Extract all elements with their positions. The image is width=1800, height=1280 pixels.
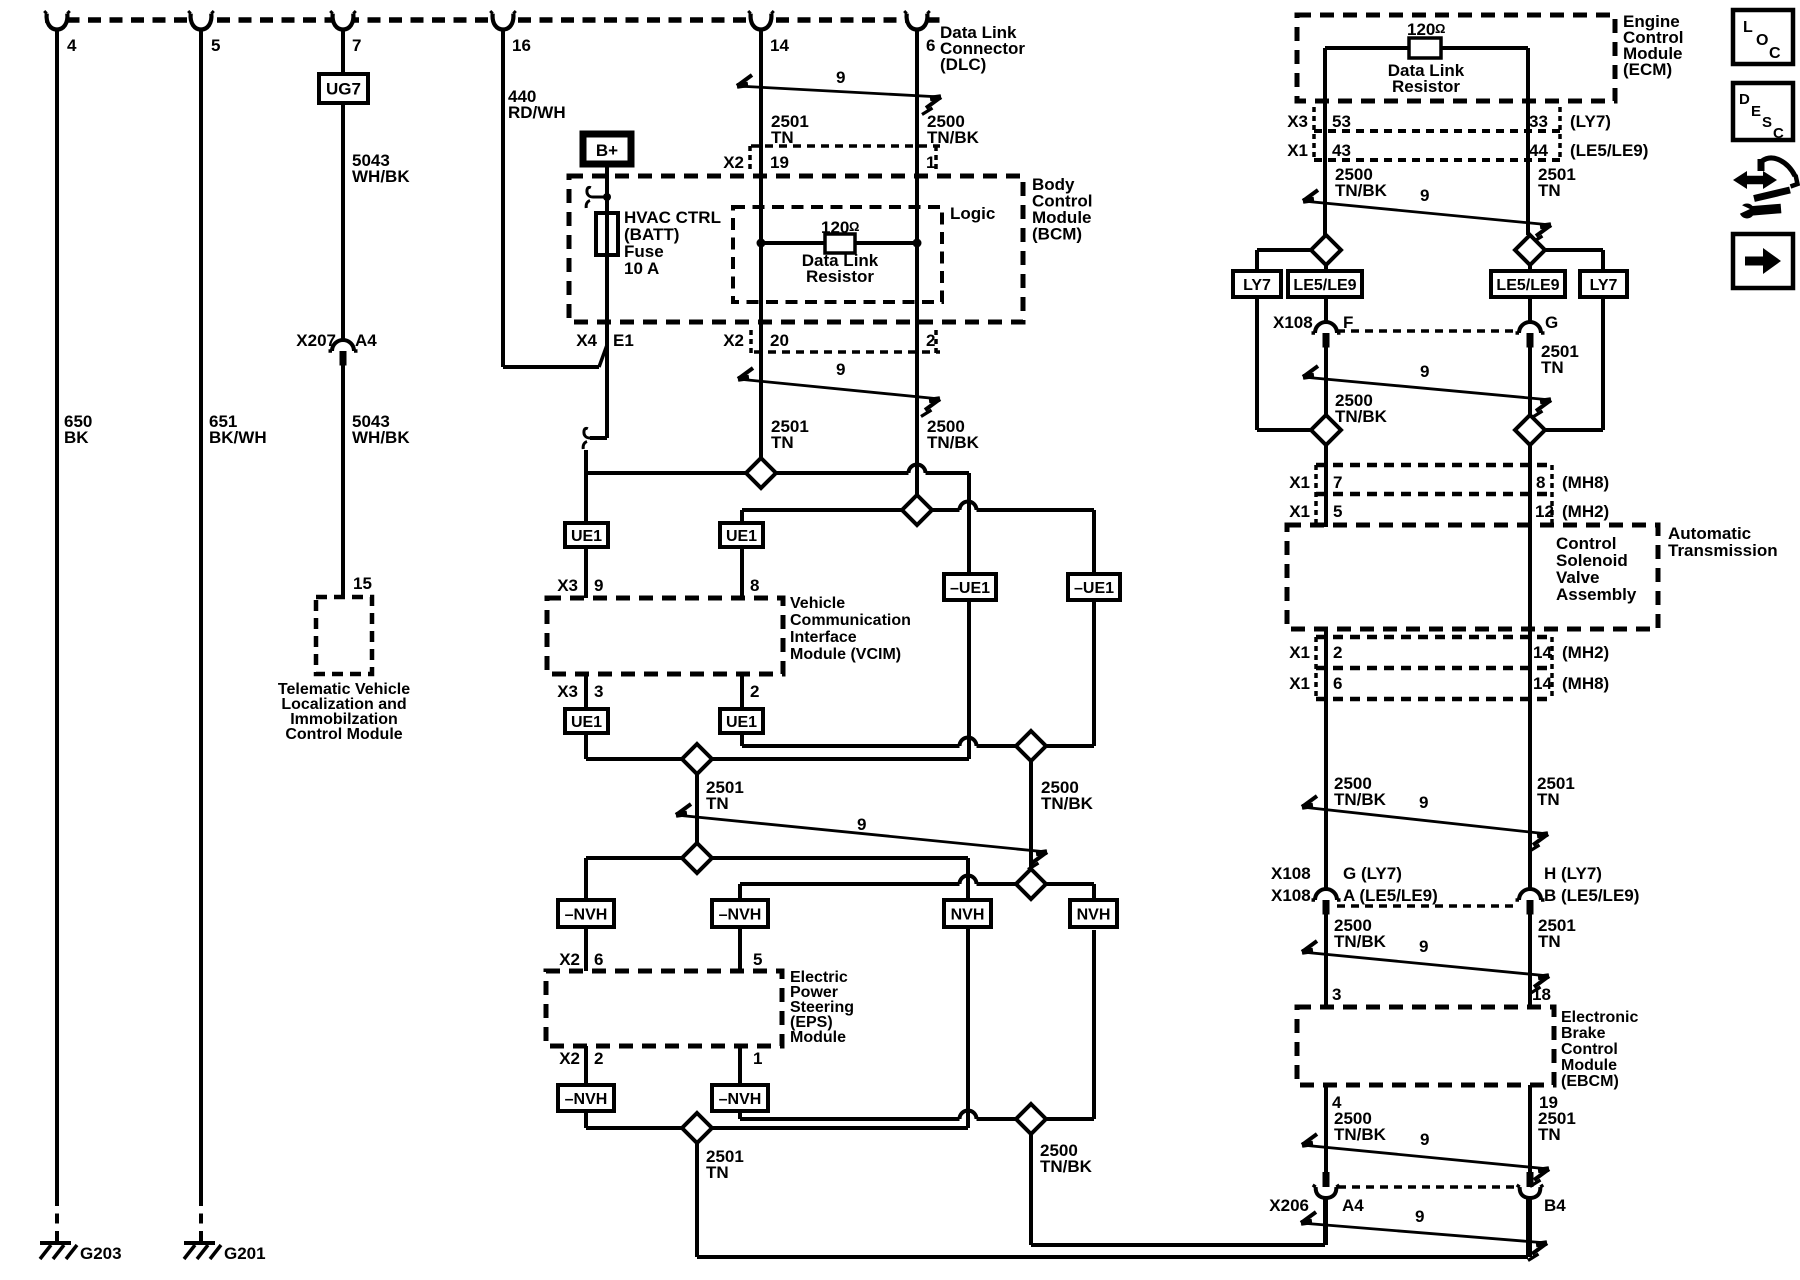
svg-text:S: S [1762, 114, 1772, 131]
svg-text:(EBCM): (EBCM) [1561, 1073, 1619, 1090]
svg-text:A4: A4 [355, 331, 377, 350]
svg-text:G: G [1545, 313, 1558, 332]
svg-text:Control: Control [1561, 1041, 1618, 1058]
svg-text:2: 2 [750, 682, 759, 701]
svg-text:(DLC): (DLC) [940, 55, 986, 74]
svg-text:X1: X1 [1287, 141, 1308, 160]
svg-text:(MH8): (MH8) [1562, 674, 1609, 693]
svg-text:X108: X108 [1271, 864, 1311, 883]
svg-text:16: 16 [512, 36, 531, 55]
svg-text:9: 9 [1419, 793, 1428, 812]
svg-text:F: F [1343, 313, 1353, 332]
svg-text:9: 9 [1420, 186, 1429, 205]
svg-text:LY7: LY7 [1243, 277, 1271, 294]
svg-text:6: 6 [926, 36, 935, 55]
svg-text:TN/BK: TN/BK [927, 433, 980, 452]
svg-text:2: 2 [1333, 643, 1342, 662]
svg-text:33: 33 [1529, 112, 1548, 131]
svg-text:20: 20 [770, 331, 789, 350]
svg-text:D: D [1739, 91, 1750, 108]
svg-text:RD/WH: RD/WH [508, 103, 566, 122]
svg-text:44: 44 [1529, 141, 1548, 160]
svg-text:UE1: UE1 [726, 528, 757, 545]
svg-text:L: L [1743, 19, 1753, 36]
svg-text:X108: X108 [1273, 313, 1313, 332]
svg-text:A4: A4 [1342, 1196, 1364, 1215]
svg-text:4: 4 [67, 36, 77, 55]
svg-text:LY7: LY7 [1590, 277, 1618, 294]
svg-text:3: 3 [1332, 985, 1341, 1004]
svg-text:–UE1: –UE1 [950, 580, 990, 597]
svg-text:Vehicle: Vehicle [790, 595, 845, 612]
svg-text:TN/BK: TN/BK [1040, 1157, 1093, 1176]
svg-text:X4: X4 [576, 331, 597, 350]
svg-text:TN: TN [1541, 358, 1564, 377]
svg-text:A (LE5/LE9): A (LE5/LE9) [1343, 886, 1438, 905]
svg-text:5: 5 [753, 950, 762, 969]
svg-text:TN: TN [706, 794, 729, 813]
svg-text:(MH2): (MH2) [1562, 502, 1609, 521]
svg-text:UE1: UE1 [571, 714, 602, 731]
svg-text:3: 3 [594, 682, 603, 701]
svg-text:6: 6 [594, 950, 603, 969]
svg-text:X108: X108 [1271, 886, 1311, 905]
svg-text:BK: BK [64, 428, 89, 447]
svg-text:TN/BK: TN/BK [1041, 794, 1094, 813]
svg-text:Logic: Logic [950, 204, 995, 223]
svg-text:–NVH: –NVH [719, 907, 762, 924]
svg-text:Module: Module [790, 1029, 846, 1046]
svg-text:Module (VCIM): Module (VCIM) [790, 646, 901, 663]
svg-text:(BCM): (BCM) [1032, 225, 1082, 244]
svg-text:G201: G201 [224, 1244, 266, 1263]
svg-text:X2: X2 [559, 950, 580, 969]
svg-text:(MH8): (MH8) [1562, 473, 1609, 492]
svg-text:TN/BK: TN/BK [1334, 790, 1387, 809]
svg-text:(MH2): (MH2) [1562, 643, 1609, 662]
svg-text:B+: B+ [596, 141, 618, 160]
svg-text:X3: X3 [1287, 112, 1308, 131]
svg-text:TN: TN [1538, 1125, 1561, 1144]
svg-text:12: 12 [1535, 502, 1554, 521]
svg-text:8: 8 [750, 576, 759, 595]
svg-text:–UE1: –UE1 [1074, 580, 1114, 597]
svg-text:BK/WH: BK/WH [209, 428, 267, 447]
svg-text:WH/BK: WH/BK [352, 167, 410, 186]
svg-text:Ω: Ω [1435, 21, 1445, 36]
svg-text:LE5/LE9: LE5/LE9 [1293, 277, 1356, 294]
svg-text:Ω: Ω [849, 219, 859, 234]
svg-text:X1: X1 [1289, 643, 1310, 662]
svg-text:7: 7 [1333, 473, 1342, 492]
svg-text:15: 15 [353, 574, 372, 593]
svg-text:120: 120 [821, 218, 849, 237]
svg-text:(LY7): (LY7) [1570, 112, 1611, 131]
svg-text:X1: X1 [1289, 674, 1310, 693]
svg-text:G203: G203 [80, 1244, 122, 1263]
svg-text:5: 5 [211, 36, 220, 55]
svg-text:Transmission: Transmission [1668, 541, 1778, 560]
svg-text:TN: TN [1537, 790, 1560, 809]
svg-text:–NVH: –NVH [565, 1091, 608, 1108]
svg-text:X1: X1 [1289, 473, 1310, 492]
svg-text:10 A: 10 A [624, 259, 659, 278]
svg-text:–NVH: –NVH [565, 907, 608, 924]
svg-text:53: 53 [1332, 112, 1351, 131]
svg-text:X207: X207 [296, 331, 336, 350]
svg-text:120: 120 [1407, 20, 1435, 39]
svg-text:7: 7 [352, 36, 361, 55]
svg-text:X3: X3 [557, 682, 578, 701]
svg-text:9: 9 [1420, 362, 1429, 381]
svg-text:X2: X2 [559, 1049, 580, 1068]
svg-text:14: 14 [770, 36, 789, 55]
svg-text:TN: TN [771, 128, 794, 147]
svg-text:5: 5 [1333, 502, 1342, 521]
svg-text:9: 9 [836, 68, 845, 87]
svg-text:TN/BK: TN/BK [927, 128, 980, 147]
svg-text:2: 2 [926, 331, 935, 350]
svg-text:H (LY7): H (LY7) [1544, 864, 1602, 883]
svg-text:NVH: NVH [951, 907, 985, 924]
svg-text:9: 9 [857, 815, 866, 834]
svg-text:TN/BK: TN/BK [1335, 407, 1388, 426]
svg-text:UG7: UG7 [326, 80, 361, 99]
svg-text:6: 6 [1333, 674, 1342, 693]
svg-text:19: 19 [770, 153, 789, 172]
svg-text:TN/BK: TN/BK [1334, 932, 1387, 951]
svg-text:8: 8 [1536, 473, 1545, 492]
svg-text:Resistor: Resistor [806, 267, 874, 286]
svg-text:1: 1 [753, 1049, 762, 1068]
svg-text:X2: X2 [723, 331, 744, 350]
svg-text:43: 43 [1332, 141, 1351, 160]
svg-text:9: 9 [1419, 937, 1428, 956]
svg-text:E1: E1 [613, 331, 634, 350]
svg-text:Communication: Communication [790, 612, 911, 629]
svg-text:14: 14 [1533, 674, 1552, 693]
svg-text:(ECM): (ECM) [1623, 60, 1672, 79]
svg-text:14: 14 [1533, 643, 1552, 662]
svg-text:TN/BK: TN/BK [1335, 181, 1388, 200]
svg-text:9: 9 [1420, 1130, 1429, 1149]
svg-text:TN: TN [771, 433, 794, 452]
svg-text:Assembly: Assembly [1556, 585, 1637, 604]
svg-text:O: O [1756, 32, 1768, 49]
svg-text:X206: X206 [1269, 1196, 1309, 1215]
svg-text:X1: X1 [1289, 502, 1310, 521]
svg-text:TN: TN [706, 1163, 729, 1182]
svg-text:C: C [1773, 125, 1784, 142]
svg-text:Module: Module [1561, 1057, 1617, 1074]
svg-text:C: C [1769, 45, 1781, 62]
svg-text:UE1: UE1 [726, 714, 757, 731]
svg-text:TN/BK: TN/BK [1334, 1125, 1387, 1144]
svg-text:18: 18 [1532, 985, 1551, 1004]
svg-text:X2: X2 [723, 153, 744, 172]
svg-text:Interface: Interface [790, 629, 857, 646]
svg-text:UE1: UE1 [571, 528, 602, 545]
svg-text:B4: B4 [1544, 1196, 1566, 1215]
svg-text:TN: TN [1538, 181, 1561, 200]
svg-text:Control Module: Control Module [285, 726, 402, 743]
svg-text:9: 9 [1415, 1207, 1424, 1226]
svg-text:1: 1 [926, 153, 935, 172]
svg-text:(LE5/LE9): (LE5/LE9) [1570, 141, 1648, 160]
svg-text:X3: X3 [557, 576, 578, 595]
svg-text:B (LE5/LE9): B (LE5/LE9) [1544, 886, 1639, 905]
svg-text:9: 9 [836, 360, 845, 379]
svg-text:NVH: NVH [1077, 907, 1111, 924]
svg-text:LE5/LE9: LE5/LE9 [1496, 277, 1559, 294]
svg-text:E: E [1751, 103, 1761, 120]
svg-text:G (LY7): G (LY7) [1343, 864, 1402, 883]
svg-text:Resistor: Resistor [1392, 77, 1460, 96]
svg-text:Brake: Brake [1561, 1025, 1606, 1042]
svg-text:Electronic: Electronic [1561, 1009, 1638, 1026]
svg-text:9: 9 [594, 576, 603, 595]
svg-text:TN: TN [1538, 932, 1561, 951]
svg-text:WH/BK: WH/BK [352, 428, 410, 447]
svg-text:–NVH: –NVH [719, 1091, 762, 1108]
svg-text:2: 2 [594, 1049, 603, 1068]
